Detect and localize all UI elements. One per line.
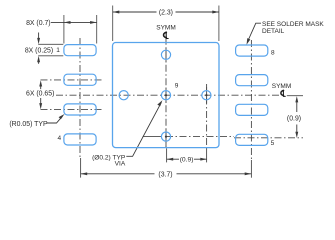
extension line (0.9) bottom-right bbox=[206, 148, 208, 162]
wire via crosshair right bbox=[206, 87, 208, 104]
svg-text:8X (0.25): 8X (0.25) bbox=[25, 48, 53, 55]
centerline right via vertical x=206.4 bbox=[206, 84, 208, 148]
via bottom bbox=[161, 132, 170, 141]
extension line (2.3) left bbox=[112, 6, 114, 42]
via top bbox=[161, 50, 170, 59]
via right bbox=[202, 91, 211, 100]
dimension 8X(0.7) bbox=[51, 21, 97, 23]
extension line (2.3) right bbox=[218, 6, 220, 42]
extension line (3.7) left bbox=[80, 158, 82, 178]
centerline left pad column x=80 bbox=[79, 38, 81, 158]
dimension (0.9) bottom bbox=[167, 158, 207, 160]
extension line (0.9) bottom-left bbox=[166, 148, 168, 162]
dimension 8X(0.25) bbox=[38, 33, 40, 40]
pad 5 bbox=[236, 134, 268, 145]
svg-text:9: 9 bbox=[175, 82, 179, 89]
pad 9 thermal (center) bbox=[113, 43, 220, 148]
extension line 8X(0.7) left bbox=[63, 15, 65, 44]
svg-text:SYMM: SYMM bbox=[156, 25, 176, 32]
svg-text:8: 8 bbox=[271, 50, 275, 57]
svg-text:SEE SOLDER MASK: SEE SOLDER MASK bbox=[262, 21, 324, 28]
wire via crosshair center bbox=[165, 88, 167, 104]
pad 1 bbox=[64, 45, 96, 56]
pad 7 bbox=[236, 75, 268, 86]
pad 6 bbox=[236, 104, 268, 115]
wire via leader stub bbox=[143, 136, 162, 138]
svg-text:DETAIL: DETAIL bbox=[262, 28, 285, 35]
wire via crosshair bottom bbox=[165, 129, 167, 149]
via right dot bbox=[205, 94, 207, 96]
via bottom dot bbox=[165, 136, 167, 138]
pad 3 bbox=[64, 104, 96, 115]
extension line 8X(0.7) right bbox=[96, 15, 98, 44]
pad 8 bbox=[236, 45, 268, 56]
centerline SYMM vertical x=166 bbox=[165, 38, 167, 148]
via left bbox=[119, 91, 128, 100]
svg-text:(2.3): (2.3) bbox=[159, 9, 173, 16]
dimension 6X(0.65) bbox=[40, 86, 42, 105]
svg-text:6X (0.65): 6X (0.65) bbox=[26, 91, 54, 98]
centerline pad row 3 bbox=[41, 109, 102, 111]
via center dot bbox=[165, 94, 167, 96]
extension line 8X(0.25) top bbox=[38, 43, 63, 45]
centerline pad row 2 bbox=[41, 79, 102, 81]
extension line 8X(0.25) bottom bbox=[38, 55, 63, 57]
extension line (0.9) right SYMM bbox=[287, 95, 303, 97]
centerline SYMM horizontal y=95.2 bbox=[56, 94, 281, 96]
label 6X (0.65) bbox=[26, 89, 56, 97]
dimension (3.7) bbox=[81, 173, 252, 175]
centerline via bottom row bbox=[166, 136, 234, 138]
svg-text:4: 4 bbox=[57, 135, 61, 142]
dimension (0.9) right bbox=[296, 102, 298, 133]
centerline symbol top bbox=[164, 33, 167, 38]
svg-text:1: 1 bbox=[56, 47, 60, 54]
leader (R0.05) TYP bbox=[47, 116, 63, 123]
svg-text:(3.7): (3.7) bbox=[158, 171, 172, 178]
pad 2 bbox=[64, 74, 96, 85]
svg-text:(0.9): (0.9) bbox=[287, 116, 301, 123]
svg-text:8X (0.7): 8X (0.7) bbox=[26, 20, 51, 27]
leader via bbox=[126, 102, 161, 156]
centerline right pad column x=251.5 bbox=[250, 40, 252, 160]
via center bbox=[161, 91, 170, 100]
extension line (3.7) right bbox=[250, 160, 252, 178]
label (2.3) bbox=[158, 8, 175, 17]
centerline pad 5 row bbox=[234, 137, 303, 139]
svg-text:VIA: VIA bbox=[115, 161, 126, 168]
leader see solder mask detail bbox=[248, 23, 261, 41]
label (0.9) right bbox=[286, 114, 304, 123]
svg-text:5: 5 bbox=[271, 140, 275, 147]
pad 4 bbox=[64, 134, 96, 145]
svg-text:(0.9): (0.9) bbox=[180, 156, 194, 163]
svg-text:(R0.05) TYP: (R0.05) TYP bbox=[9, 121, 48, 128]
svg-text:SYMM: SYMM bbox=[272, 83, 292, 90]
wire via crosshair top bbox=[165, 48, 167, 63]
dimension (2.3) bbox=[113, 11, 219, 13]
centerline symbol right bbox=[281, 91, 284, 96]
